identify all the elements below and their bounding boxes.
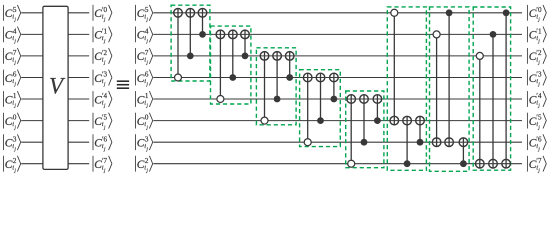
ket label |C^0_ij> input row 6 (right block) [135, 113, 137, 129]
dashed group box 8 [473, 7, 510, 170]
ket label |C^3_ij> input row 7 (right block) [135, 134, 137, 150]
ket label |C'^4_ij> output row 5 (left block) [92, 91, 94, 107]
wire [21, 120, 43, 122]
wire [21, 33, 43, 35]
wire [153, 55, 522, 57]
CNOT gate: target row 1, filled control row 3 [189, 9, 191, 56]
ket label |C^3_ij> input row 7 (left block) [3, 134, 5, 150]
ket label |C'^7_ij> output row 8 (left block) [92, 156, 94, 172]
ket label |C^4_ij> input row 2 (right block) [135, 27, 137, 43]
CNOT gate: target row 1, open control row 4 [177, 9, 179, 78]
CNOT gate: target row 2, filled control row 3 [244, 30, 246, 56]
CNOT gate: target row 7, filled control row 1 [448, 13, 450, 147]
dashed group box 6 [387, 7, 426, 170]
ket label |C'^7_ij> output row 8 (right block) [526, 156, 528, 172]
CNOT gate: target row 4, filled control row 6 [320, 73, 322, 120]
CNOT gate: target row 4, filled control row 5 [333, 73, 335, 99]
ket label |C'^6_ij> output row 7 (right block) [526, 134, 528, 150]
ket label |C^0_ij> input row 6 (left block) [3, 113, 5, 129]
CNOT gate: target row 3, filled control row 5 [276, 52, 278, 99]
ket label |C^1_ij> input row 5 (right block) [135, 91, 137, 107]
ket label |C'^3_ij> output row 4 (left block) [92, 70, 94, 86]
wire [68, 77, 89, 79]
equivalence symbol [117, 80, 129, 82]
CNOT gate: target row 5, open control row 8 [350, 95, 352, 164]
ket label |C^2_ij> input row 8 (right block) [135, 156, 137, 172]
ket label |C'^5_ij> output row 6 (right block) [526, 113, 528, 129]
wire [21, 12, 43, 14]
wire [153, 120, 522, 122]
dashed group box 7 [430, 7, 470, 171]
wire [21, 55, 43, 57]
ket label |C^2_ij> input row 8 (left block) [3, 156, 5, 172]
wire [68, 120, 89, 122]
CNOT gate: target row 7, open control row 2 [436, 34, 438, 146]
CNOT gate: target row 6, filled control row 8 [406, 116, 408, 163]
wire [68, 141, 89, 143]
dashed group box 1 [171, 5, 210, 81]
ket label |C^6_ij> input row 4 (left block) [3, 70, 5, 86]
ket label |C'^0_ij> output row 1 (right block) [526, 5, 528, 21]
ket label |C'^4_ij> output row 5 (right block) [526, 91, 528, 107]
wire [153, 12, 522, 14]
ket label |C'^2_ij> output row 3 (left block) [92, 48, 94, 64]
wire [153, 98, 522, 100]
dashed group box 3 [256, 48, 296, 125]
wire [68, 12, 89, 14]
CNOT gate: target row 6, filled control row 7 [419, 116, 421, 142]
wire [21, 98, 43, 100]
wire [68, 98, 89, 100]
CNOT gate: target row 5, filled control row 7 [363, 95, 365, 143]
wire [21, 77, 43, 79]
wire [153, 163, 522, 165]
CNOT gate: target row 8, filled control row 2 [492, 34, 494, 168]
ket label |C'^5_ij> output row 6 (left block) [92, 113, 94, 129]
CNOT gate: target row 3, open control row 6 [264, 52, 266, 121]
ket label |C^7_ij> input row 3 (right block) [135, 48, 137, 64]
CNOT gate: target row 2, open control row 5 [219, 30, 221, 99]
ket label |C'^6_ij> output row 7 (left block) [92, 134, 94, 150]
wire [68, 33, 89, 35]
ket label |C^4_ij> input row 2 (left block) [3, 27, 5, 43]
wire [153, 33, 522, 35]
dashed group box 4 [300, 70, 341, 147]
ket label |C^7_ij> input row 3 (left block) [3, 48, 5, 64]
CNOT gate: target row 6, open control row 1 [393, 13, 395, 125]
wire [68, 55, 89, 57]
gate box V [43, 6, 68, 169]
ket label |C^5_ij> input row 1 (left block) [3, 5, 5, 21]
CNOT gate: target row 2, filled control row 4 [232, 30, 234, 77]
CNOT gate: target row 8, filled control row 1 [505, 13, 507, 168]
wire [153, 77, 522, 79]
ket label |C'^1_ij> output row 2 (right block) [526, 27, 528, 43]
CNOT gate: target row 5, filled control row 6 [376, 95, 378, 121]
ket label |C'^0_ij> output row 1 (left block) [92, 5, 94, 21]
ket label |C^1_ij> input row 5 (left block) [3, 91, 5, 107]
wire [21, 141, 43, 143]
dashed group box 2 [211, 26, 251, 104]
CNOT gate: target row 8, open control row 3 [479, 56, 481, 168]
ket label |C^6_ij> input row 4 (right block) [135, 70, 137, 86]
wire [68, 163, 89, 165]
dashed group box 5 [346, 91, 384, 168]
ket label |C'^1_ij> output row 2 (left block) [92, 27, 94, 43]
ket label |C^5_ij> input row 1 (right block) [135, 5, 137, 21]
CNOT gate: target row 1, filled control row 2 [202, 9, 204, 35]
wire [153, 141, 522, 143]
CNOT gate: target row 3, filled control row 4 [289, 52, 291, 78]
wire [21, 163, 43, 165]
CNOT gate: target row 4, open control row 7 [307, 73, 309, 142]
ket label |C'^2_ij> output row 3 (right block) [526, 48, 528, 64]
ket label |C'^3_ij> output row 4 (right block) [526, 70, 528, 86]
CNOT gate: target row 7, filled control row 8 [462, 138, 464, 164]
